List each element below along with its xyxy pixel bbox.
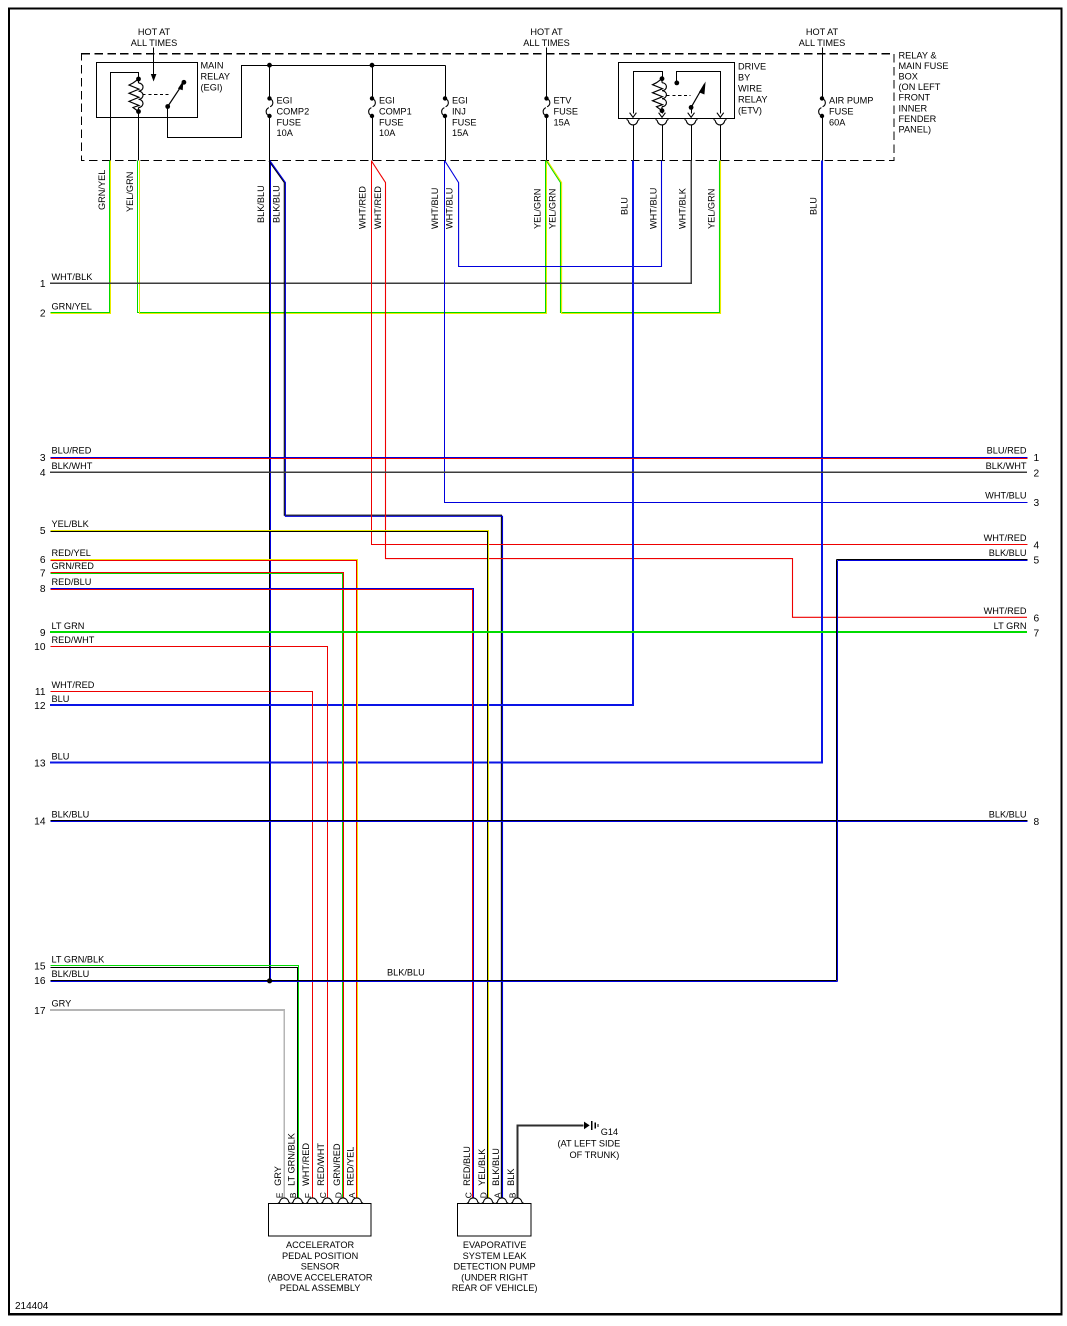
- svg-text:WHT/BLU: WHT/BLU: [445, 188, 455, 229]
- power feed HOT AT ALL TIMES (main relay): [131, 27, 177, 81]
- svg-text:SENSOR: SENSOR: [301, 1262, 340, 1272]
- svg-text:MAIN FUSE: MAIN FUSE: [899, 61, 949, 71]
- svg-text:214404: 214404: [15, 1301, 49, 1312]
- pedal connector cup pin B: [291, 1198, 304, 1203]
- svg-text:BLK/WHT: BLK/WHT: [52, 461, 93, 471]
- node left 16 (BLK/BLU): [34, 969, 89, 987]
- svg-text:ACCELERATOR: ACCELERATOR: [286, 1240, 354, 1250]
- node left 8 (RED/BLU): [40, 577, 92, 595]
- svg-text:BLK/BLU: BLK/BLU: [989, 809, 1027, 819]
- evap pump caption: [452, 1240, 538, 1293]
- node left 10 (RED/WHT): [34, 635, 95, 653]
- wire YEL/GRN ETV fuse right branch to DBW pin4: [547, 161, 721, 314]
- svg-text:7: 7: [40, 568, 46, 579]
- svg-text:10: 10: [34, 642, 46, 653]
- svg-text:3: 3: [40, 453, 46, 464]
- svg-text:EGI: EGI: [379, 96, 395, 106]
- svg-text:8: 8: [40, 584, 46, 595]
- svg-text:INJ: INJ: [452, 106, 466, 116]
- svg-text:RED/YEL: RED/YEL: [52, 548, 91, 558]
- evap connector cup pin A: [496, 1198, 509, 1203]
- wire BLK/WHT row4 (left4 to right2): [50, 471, 1027, 473]
- svg-text:RED/YEL: RED/YEL: [346, 1147, 356, 1186]
- svg-text:BOX: BOX: [899, 72, 918, 82]
- svg-text:17: 17: [34, 1006, 46, 1017]
- node left 7 (GRN/RED): [40, 561, 94, 579]
- svg-text:RELAY &: RELAY &: [899, 51, 937, 61]
- pedal connector cup pin C: [321, 1198, 334, 1203]
- svg-text:DRIVE: DRIVE: [738, 62, 766, 72]
- svg-text:LT GRN/BLK: LT GRN/BLK: [52, 955, 106, 965]
- svg-text:EVAPORATIVE: EVAPORATIVE: [463, 1240, 526, 1250]
- svg-text:RED/BLU: RED/BLU: [52, 577, 92, 587]
- drive by wire relay (ETV) box: [619, 63, 735, 119]
- svg-text:9: 9: [40, 628, 46, 639]
- svg-text:FUSE: FUSE: [829, 106, 854, 116]
- svg-text:ALL TIMES: ALL TIMES: [131, 38, 177, 48]
- node left 12 (BLU): [34, 694, 69, 712]
- fuse bus junction node (EGI COMP2): [267, 63, 272, 68]
- evap connector cup pin D: [482, 1198, 495, 1203]
- svg-text:ALL TIMES: ALL TIMES: [523, 38, 569, 48]
- svg-text:HOT AT: HOT AT: [806, 27, 839, 37]
- svg-text:BLK/BLU: BLK/BLU: [52, 809, 90, 819]
- DBW relay connector cup pin3: [685, 120, 698, 125]
- svg-text:WHT/BLU: WHT/BLU: [985, 491, 1026, 501]
- accelerator pedal caption: [268, 1240, 373, 1293]
- svg-text:BLK: BLK: [506, 1168, 516, 1186]
- svg-text:GRY: GRY: [52, 999, 72, 1009]
- node right 2 (BLK/WHT): [986, 461, 1040, 480]
- svg-text:C: C: [318, 1192, 328, 1198]
- relay and main fuse box (dashed enclosure): [82, 54, 895, 161]
- svg-text:YEL/GRN: YEL/GRN: [548, 189, 558, 229]
- svg-text:60A: 60A: [829, 117, 846, 127]
- svg-text:C: C: [464, 1192, 474, 1198]
- svg-text:LT GRN/BLK: LT GRN/BLK: [287, 1132, 297, 1186]
- svg-text:WHT/RED: WHT/RED: [984, 533, 1027, 543]
- DBW relay coil L2: [653, 76, 667, 113]
- wire DBW pin1 lead: [633, 125, 635, 161]
- svg-text:PEDAL POSITION: PEDAL POSITION: [282, 1251, 358, 1261]
- node right 1 (BLU/RED): [987, 446, 1040, 465]
- svg-text:BLU: BLU: [620, 197, 630, 215]
- DBW relay coil wire pin2: [662, 111, 664, 114]
- svg-text:1: 1: [1034, 453, 1040, 464]
- svg-text:FRONT: FRONT: [899, 93, 931, 103]
- svg-text:FUSE: FUSE: [277, 117, 302, 127]
- svg-text:YEL/GRN: YEL/GRN: [125, 172, 135, 212]
- fuse EGI COMP1 10A: [369, 96, 412, 139]
- svg-text:WHT/RED: WHT/RED: [301, 1143, 311, 1186]
- svg-text:13: 13: [34, 759, 46, 770]
- svg-text:GRY: GRY: [273, 1166, 283, 1186]
- svg-text:4: 4: [1034, 541, 1040, 552]
- svg-text:GRN/YEL: GRN/YEL: [97, 170, 107, 210]
- power feed HOT AT ALL TIMES (ETV fuse): [523, 27, 569, 98]
- wire WHT/BLU INJ left branch to right row3: [445, 161, 1028, 503]
- svg-text:FUSE: FUSE: [452, 117, 477, 127]
- DBW relay connector cup pin4: [714, 120, 727, 125]
- svg-text:2: 2: [1034, 469, 1040, 480]
- wire WHT/BLU INJ right branch to DBW pin2: [445, 161, 662, 267]
- svg-text:15A: 15A: [554, 117, 571, 127]
- wire WHT/RED COMP1 left branch to right row4: [372, 161, 1028, 545]
- node left 6 (RED/YEL): [40, 548, 91, 566]
- wire DBW pin2 lead: [662, 125, 664, 161]
- svg-text:6: 6: [1034, 614, 1040, 625]
- svg-text:A: A: [347, 1192, 357, 1198]
- svg-text:BLU: BLU: [808, 197, 818, 215]
- wire YEL/GRN main relay coil to ETV fuse: [138, 161, 547, 314]
- svg-text:OF TRUNK): OF TRUNK): [570, 1150, 620, 1160]
- wire AIR PUMP fuse output: [822, 117, 824, 161]
- svg-text:A: A: [492, 1192, 502, 1198]
- svg-text:WHT/RED: WHT/RED: [52, 680, 95, 690]
- svg-text:INNER: INNER: [899, 103, 928, 113]
- wire BLK/BLU row14 (left14 to right8): [51, 821, 1028, 822]
- DBW relay internal wire pin1: [634, 72, 663, 114]
- DBW relay mechanical link (dashed): [667, 95, 691, 97]
- junction node row16 / COMP2 left branch: [267, 978, 272, 983]
- svg-text:LT GRN: LT GRN: [52, 621, 85, 631]
- svg-text:YEL/BLK: YEL/BLK: [52, 519, 90, 529]
- svg-text:DETECTION PUMP: DETECTION PUMP: [454, 1262, 536, 1272]
- wire EGI INJ fuse output: [445, 117, 447, 161]
- svg-text:WHT/BLK: WHT/BLK: [677, 187, 687, 229]
- svg-text:BLU/RED: BLU/RED: [987, 446, 1027, 456]
- node left 5 (YEL/BLK): [40, 519, 90, 537]
- svg-text:COMP1: COMP1: [379, 106, 412, 116]
- wire DBW pin3 lead: [691, 125, 693, 161]
- svg-text:B: B: [288, 1192, 298, 1198]
- DBW relay fixed contact: [674, 72, 723, 118]
- wire GRY row17 to pedal pin E: [50, 1010, 284, 1198]
- main relay switched feed wire to fuse bus: [168, 66, 446, 138]
- svg-text:D: D: [333, 1192, 343, 1198]
- svg-text:5: 5: [40, 526, 46, 537]
- svg-text:10A: 10A: [379, 128, 396, 138]
- DBW relay switch arm pin3: [688, 82, 706, 118]
- svg-text:11: 11: [35, 687, 46, 698]
- svg-text:6: 6: [40, 555, 46, 566]
- svg-text:BLK/BLU: BLK/BLU: [271, 185, 281, 223]
- wire BLU/RED row3 (left3 to right1): [51, 458, 1028, 459]
- wire BLU DBW pin1 to row12: [50, 161, 633, 706]
- svg-text:BLK/BLU: BLK/BLU: [52, 969, 90, 979]
- svg-text:RELAY: RELAY: [201, 72, 230, 82]
- node left 1 (WHT/BLK): [40, 272, 93, 290]
- svg-text:14: 14: [34, 816, 46, 827]
- evap connector cup pin C: [467, 1198, 480, 1203]
- main relay switch contact: [165, 80, 186, 109]
- fuse AIR PUMP 60A: [819, 96, 874, 128]
- wire LT GRN row9 (left9 to right7): [50, 631, 1027, 633]
- node right 4 (WHT/RED): [984, 533, 1040, 552]
- svg-text:WIRE: WIRE: [738, 84, 762, 94]
- svg-text:BLU: BLU: [52, 694, 70, 704]
- svg-text:PEDAL ASSEMBLY: PEDAL ASSEMBLY: [280, 1283, 361, 1293]
- node left 17 (GRY): [34, 999, 71, 1017]
- svg-text:RED/WHT: RED/WHT: [52, 635, 95, 645]
- svg-text:WHT/BLK: WHT/BLK: [52, 272, 94, 282]
- evaporative system leak detection pump connector box: [458, 1204, 532, 1237]
- svg-text:(AT LEFT SIDE: (AT LEFT SIDE: [558, 1139, 621, 1149]
- svg-text:2: 2: [40, 308, 46, 319]
- svg-text:FENDER: FENDER: [899, 114, 937, 124]
- wire bus drop to EGI COMP1 fuse: [372, 66, 374, 99]
- wire WHT/BLK row1 net to DBW pin3: [50, 161, 691, 284]
- wire DBW pin4 lead: [720, 125, 722, 161]
- evap connector cup pin B: [511, 1198, 524, 1203]
- node right 5 (BLK/BLU): [989, 548, 1040, 567]
- svg-text:FUSE: FUSE: [379, 117, 404, 127]
- node right 7 (LT GRN): [994, 621, 1040, 640]
- wire bus drop to EGI INJ fuse: [445, 66, 447, 99]
- svg-text:WHT/RED: WHT/RED: [984, 606, 1027, 616]
- svg-text:F: F: [303, 1193, 313, 1198]
- svg-text:EGI: EGI: [277, 96, 293, 106]
- svg-text:7: 7: [1034, 628, 1040, 639]
- node left 15 (LT GRN/BLK): [34, 955, 105, 973]
- wire EGI COMP1 fuse output: [372, 117, 374, 161]
- svg-text:8: 8: [1034, 817, 1040, 828]
- wire ETV fuse output: [546, 117, 548, 161]
- wire WHT/RED COMP1 right branch to right row6: [372, 161, 1028, 617]
- svg-text:(ABOVE ACCELERATOR: (ABOVE ACCELERATOR: [268, 1272, 373, 1282]
- DBW relay connector cup pin1: [627, 120, 640, 125]
- ground G14: [584, 1121, 598, 1130]
- svg-text:G14: G14: [601, 1127, 618, 1137]
- pedal connector cup pin F: [306, 1198, 319, 1203]
- svg-text:YEL/BLK: YEL/BLK: [477, 1148, 487, 1186]
- svg-text:BLU: BLU: [52, 751, 70, 761]
- node left 13 (BLU): [34, 751, 69, 769]
- pedal connector cup pin D: [337, 1198, 350, 1203]
- wire GRN/YEL row2 net: [51, 161, 111, 314]
- svg-text:WHT/BLU: WHT/BLU: [430, 188, 440, 229]
- DBW relay connector cup pin2: [656, 120, 669, 125]
- svg-text:ALL TIMES: ALL TIMES: [799, 38, 845, 48]
- svg-text:REAR OF VEHICLE): REAR OF VEHICLE): [452, 1283, 538, 1293]
- svg-text:RELAY: RELAY: [738, 95, 767, 105]
- svg-text:WHT/BLU: WHT/BLU: [649, 188, 659, 229]
- svg-text:5: 5: [1034, 555, 1040, 566]
- wire BLK/BLU COMP2 left branch (to row16 junction): [270, 161, 271, 981]
- svg-text:BLU/RED: BLU/RED: [52, 446, 92, 456]
- svg-text:3: 3: [1034, 498, 1040, 509]
- svg-text:SYSTEM LEAK: SYSTEM LEAK: [463, 1251, 528, 1261]
- wire RED/WHT row10 to pedal pin C: [51, 647, 328, 1198]
- main relay coil L1: [129, 77, 143, 114]
- svg-text:BLK/BLU: BLK/BLU: [387, 968, 425, 978]
- pedal connector cup pin E: [278, 1198, 291, 1203]
- svg-text:LT GRN: LT GRN: [994, 621, 1027, 631]
- wire WHT/RED row11 to pedal pin F: [51, 692, 313, 1198]
- main relay coil wire to GRN/YEL: [111, 73, 139, 161]
- fuse ETV 15A: [543, 96, 578, 128]
- wire BLK/BLU row16 to right row5: [51, 560, 1028, 982]
- wire bus drop to EGI COMP2 fuse: [269, 66, 271, 99]
- svg-text:HOT AT: HOT AT: [138, 27, 171, 37]
- node left 4 (BLK/WHT): [40, 461, 93, 479]
- svg-text:15: 15: [34, 962, 46, 973]
- svg-text:GRN/YEL: GRN/YEL: [52, 301, 92, 311]
- svg-text:(ON LEFT: (ON LEFT: [899, 82, 941, 92]
- wire LT GRN/BLK row15 to pedal pin B: [51, 966, 299, 1198]
- svg-text:16: 16: [34, 976, 46, 987]
- svg-text:10A: 10A: [277, 128, 294, 138]
- svg-text:FUSE: FUSE: [554, 106, 579, 116]
- node left 2 (GRN/YEL): [40, 301, 92, 319]
- main relay coil wire to YEL/GRN: [138, 112, 140, 161]
- svg-text:4: 4: [40, 468, 46, 479]
- svg-text:GRN/RED: GRN/RED: [52, 561, 95, 571]
- main relay mechanical link (dashed): [143, 94, 169, 96]
- node left 9 (LT GRN): [40, 621, 85, 639]
- svg-text:(ETV): (ETV): [738, 106, 762, 116]
- wire BLK/BLU COMP2 right branch to evap pin A: [269, 161, 503, 1198]
- svg-text:WHT/RED: WHT/RED: [373, 186, 383, 229]
- ground label G14: [558, 1127, 621, 1160]
- wire GRN/RED row7 to pedal pin D: [51, 573, 344, 1198]
- node left 14 (BLK/BLU): [34, 809, 89, 827]
- svg-text:AIR PUMP: AIR PUMP: [829, 96, 873, 106]
- fuse bus junction node (EGI COMP1): [370, 63, 375, 68]
- wire RED/YEL row6 to pedal pin A: [51, 560, 358, 1198]
- svg-text:YEL/GRN: YEL/GRN: [706, 189, 716, 229]
- node left 11 (WHT/RED): [35, 680, 95, 698]
- svg-text:BLK/BLU: BLK/BLU: [256, 185, 266, 223]
- svg-text:12: 12: [34, 701, 46, 712]
- svg-text:ETV: ETV: [554, 96, 573, 106]
- svg-text:B: B: [508, 1192, 518, 1198]
- svg-text:PANEL): PANEL): [899, 124, 932, 134]
- accelerator pedal position sensor connector box: [269, 1204, 372, 1237]
- node right 8 (BLK/BLU): [989, 809, 1040, 828]
- svg-text:(EGI): (EGI): [201, 83, 223, 93]
- power feed HOT AT ALL TIMES (air pump fuse): [799, 27, 845, 98]
- svg-text:1: 1: [40, 279, 46, 290]
- node left 3 (BLU/RED): [40, 446, 92, 464]
- svg-text:GRN/RED: GRN/RED: [332, 1143, 342, 1186]
- svg-text:E: E: [275, 1192, 285, 1198]
- svg-text:D: D: [478, 1192, 488, 1198]
- svg-text:MAIN: MAIN: [201, 61, 224, 71]
- svg-text:RED/WHT: RED/WHT: [316, 1143, 326, 1186]
- main relay (EGI) box: [97, 63, 198, 118]
- node right 3 (WHT/BLU): [985, 491, 1039, 510]
- svg-text:BY: BY: [738, 73, 750, 83]
- svg-text:(UNDER RIGHT: (UNDER RIGHT: [461, 1272, 528, 1282]
- svg-text:BLK/WHT: BLK/WHT: [986, 461, 1027, 471]
- wire EGI COMP2 fuse output: [269, 117, 271, 161]
- svg-text:YEL/GRN: YEL/GRN: [533, 189, 543, 229]
- wire BLU air pump fuse to row13: [50, 161, 822, 763]
- svg-text:15A: 15A: [452, 128, 469, 138]
- wire RED/BLU row8 to evap pin C: [51, 589, 474, 1198]
- wire YEL/BLK row5 to evap pin D: [51, 531, 489, 1198]
- fuse EGI COMP2 10A: [266, 96, 309, 139]
- svg-text:BLK/BLU: BLK/BLU: [491, 1148, 501, 1186]
- wire BLK evap pin B to ground G14: [517, 1125, 583, 1197]
- svg-text:BLK/BLU: BLK/BLU: [989, 548, 1027, 558]
- svg-text:RED/BLU: RED/BLU: [462, 1146, 472, 1186]
- node right 6 (WHT/RED): [984, 606, 1040, 625]
- fuse EGI INJ 15A: [442, 96, 477, 139]
- svg-text:EGI: EGI: [452, 96, 468, 106]
- pedal connector cup pin A: [351, 1198, 364, 1203]
- svg-text:HOT AT: HOT AT: [530, 27, 563, 37]
- svg-text:WHT/RED: WHT/RED: [358, 186, 368, 229]
- svg-text:COMP2: COMP2: [277, 106, 310, 116]
